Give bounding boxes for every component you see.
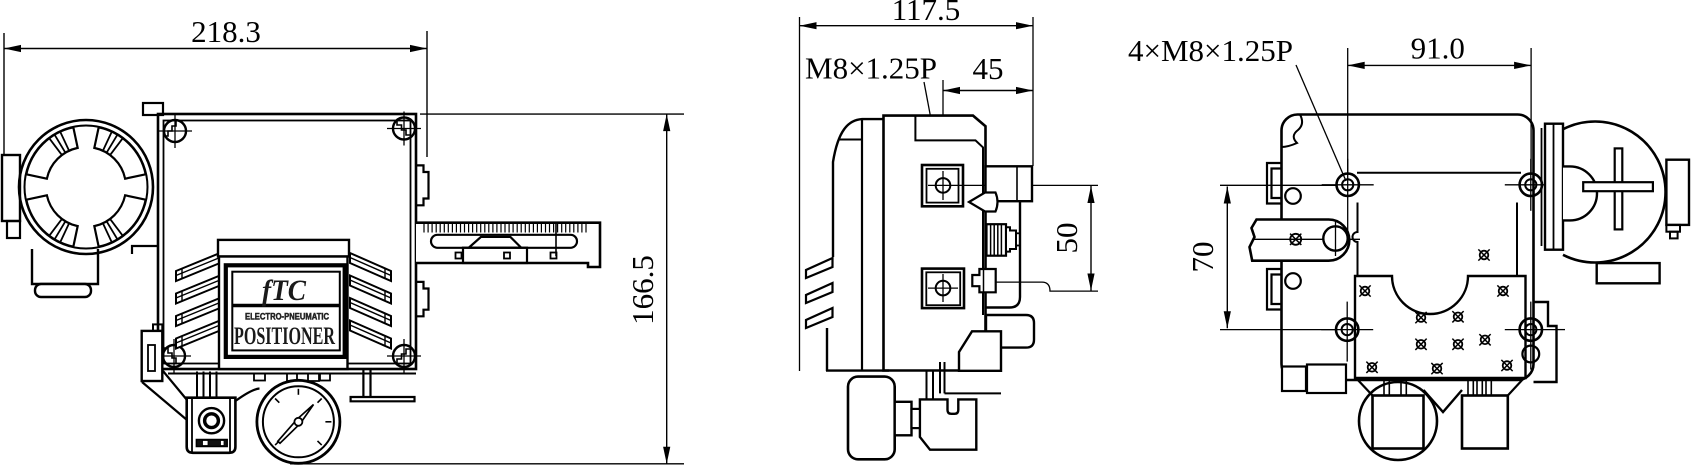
boss centerline / 50 top ref [928, 184, 1098, 186]
dimension 218.3 arrow right [410, 45, 427, 52]
bottom block left [1373, 396, 1424, 449]
dim 91.0 arrow left [1348, 62, 1365, 69]
dim 45 ext left [942, 80, 944, 182]
dim 117.5 arrow right [1016, 22, 1033, 29]
valve block [187, 398, 236, 453]
left fins [176, 253, 220, 281]
nozzle block [987, 224, 1007, 256]
edge circle lower [1285, 273, 1301, 289]
support diagonal 2 [142, 382, 187, 420]
valve bullseye inner [205, 414, 219, 428]
edge circle upper [1285, 188, 1301, 204]
dome bottom bracket [1597, 263, 1660, 283]
dome outer circle [19, 120, 153, 254]
label 4xM8 leader [1296, 65, 1346, 181]
feedback arm hole 2 [504, 253, 510, 259]
plug at lower boss [972, 269, 995, 292]
right column [986, 201, 1021, 307]
svg-text:166.5: 166.5 [625, 255, 660, 325]
back body top-left notch [1282, 115, 1303, 148]
nameplate outer frame [226, 265, 345, 357]
feedback arm ruler ticks [423, 224, 425, 233]
feedback arm outline [416, 223, 600, 267]
svg-text:fTC: fTC [262, 274, 307, 307]
svg-text:45: 45 [973, 51, 1004, 86]
dimension 218.3 line [4, 48, 427, 50]
dimension 166.5 extension line top [420, 113, 684, 115]
dim 45 line [943, 90, 1033, 92]
nozzle stripes [990, 224, 992, 256]
dim 70 arrow bottom [1224, 311, 1231, 328]
svg-text:POSITIONER: POSITIONER [234, 323, 336, 350]
valve block inner edges [191, 398, 193, 452]
pointer tag [969, 193, 998, 212]
left clip block [142, 331, 163, 381]
dim 70 top ref [1220, 184, 1336, 186]
right recess mark [1480, 251, 1489, 260]
left clip lower [1267, 269, 1282, 310]
bolt bottom-right [1520, 318, 1542, 340]
panel body [219, 257, 348, 370]
svg-text:50: 50 [1049, 223, 1084, 254]
side gauge nub [895, 402, 912, 436]
upper boss crosshair v [942, 171, 944, 200]
pump block D [959, 331, 1001, 371]
dim 70 arrow top [1224, 187, 1231, 204]
upper boss outer [922, 165, 963, 206]
bolt crosshair ext right bottom [1557, 329, 1565, 331]
T-support [351, 369, 415, 401]
terminal box step [1666, 225, 1680, 232]
dome flange outer line [1541, 128, 1543, 246]
dimension 166.5 arrow bottom [663, 447, 670, 464]
feedback arm lower block [463, 248, 527, 263]
upper boss circle [936, 178, 951, 193]
right block A [986, 166, 1033, 201]
dome foot [32, 249, 98, 284]
dim 45 arrow left [943, 87, 960, 94]
corner step bottom-right [397, 349, 411, 363]
bolt crosshair ext right top [1557, 184, 1583, 186]
svg-text:91.0: 91.0 [1411, 31, 1465, 66]
side body main outline [884, 116, 986, 371]
valve dark stripe [196, 440, 227, 447]
lower boss circle [936, 281, 951, 296]
side back plate [861, 119, 863, 371]
back recess right edge [1516, 203, 1518, 277]
feedback arm trapezoid [469, 237, 521, 248]
arm big hole centerline [1335, 221, 1337, 256]
corner step top-left [164, 121, 177, 136]
svg-text:70: 70 [1185, 242, 1220, 273]
side gauge rounded [848, 377, 895, 460]
arm small mark [1290, 234, 1301, 245]
bottom bar [168, 373, 416, 375]
pressure gauge outer circle [257, 380, 340, 463]
bottom-left rect B [1307, 365, 1346, 394]
dimension 166.5 line [666, 114, 668, 464]
plug bend line [996, 282, 1098, 291]
terminal box left [2, 155, 20, 221]
bolt top-left [1337, 174, 1359, 196]
bottom block right [1462, 396, 1508, 449]
lower boss outer [922, 269, 964, 309]
dimension 218.3 extension line right [426, 31, 428, 157]
side body top notch [915, 116, 983, 315]
terminal box step [7, 221, 20, 238]
corner screw top-left [164, 120, 186, 142]
support diagonal 1 [163, 371, 187, 400]
dimension 218.3 extension line left [3, 33, 5, 155]
V notch between blocks [1424, 390, 1463, 412]
dome flange strip [1545, 124, 1563, 250]
dim 91.0 arrow right [1514, 62, 1531, 69]
back recess top line [1357, 172, 1521, 174]
upper boss inner [927, 169, 959, 203]
manifold columns [926, 371, 928, 400]
left clip inner [148, 345, 155, 371]
pressure gauge ticks [297, 389, 299, 395]
plate screw marks [1361, 287, 1370, 296]
corner screw bottom-right [393, 345, 415, 367]
svg-text:117.5: 117.5 [892, 0, 961, 27]
body outer rectangle [158, 114, 416, 369]
terminal box right [1666, 160, 1689, 225]
svg-text:218.3: 218.3 [191, 14, 261, 49]
bottom block with notch [920, 399, 976, 449]
plate stubs [1383, 380, 1385, 396]
dim 50 arrow top [1087, 186, 1094, 203]
dome cross vertical bar [1615, 148, 1623, 229]
arm centerline [1254, 238, 1360, 240]
side gauge connector [912, 409, 920, 428]
dome cross horizontal bar [1583, 182, 1653, 191]
corner step bottom-left [164, 348, 177, 363]
back body rounded rect [1282, 115, 1534, 381]
dim 91.0 ext left [1347, 48, 1349, 173]
side cover curve [833, 119, 884, 257]
left clip top tab [153, 324, 162, 331]
bottom tab 2 [287, 374, 319, 382]
baseline bottom extension [290, 463, 684, 465]
bolt bottom-left [1336, 318, 1358, 340]
plate bevel right [1508, 378, 1524, 396]
panel top cap [218, 240, 349, 257]
bottom tab 1 [254, 374, 265, 381]
dim 91.0 line [1348, 64, 1531, 66]
dimension 218.3 arrow left [4, 45, 21, 52]
small circle below right bolt [1522, 346, 1539, 363]
right block A inner line [1016, 166, 1018, 201]
dome bump [1563, 166, 1597, 220]
lower boss inner [926, 272, 960, 305]
dim 70 bottom ref [1220, 329, 1336, 331]
dome inner rim circle [25, 126, 148, 249]
dim 117.5 ext right [1032, 17, 1034, 166]
dim 117.5 line [800, 25, 1034, 27]
feedback arm long tick [555, 224, 557, 257]
svg-text:M8×1.25P: M8×1.25P [805, 51, 937, 86]
side cover inner line [838, 139, 862, 141]
pipe lines [196, 372, 198, 398]
nameplate divider [232, 304, 339, 308]
right bracket [1534, 302, 1557, 382]
pressure gauge inner circle [263, 386, 334, 457]
right edge upper tab [416, 165, 429, 205]
dome-body step [132, 246, 159, 254]
right fins [350, 253, 391, 281]
left clip upper [1267, 163, 1282, 204]
back recess left edge [1353, 203, 1358, 277]
pressure gauge hub [294, 418, 302, 426]
nameplate inner frame [232, 272, 339, 351]
feedback arm slot [431, 235, 577, 248]
svg-text:ELECTRO-PNEUMATIC: ELECTRO-PNEUMATIC [245, 312, 329, 323]
bottom tab 3 [320, 374, 330, 381]
feedback arm hole 3 [551, 253, 557, 259]
corner step top-right [397, 121, 411, 135]
dome flange inner line [1553, 124, 1555, 250]
svg-text:4×M8×1.25P: 4×M8×1.25P [1128, 33, 1293, 68]
dim 50 arrow bottom [1087, 274, 1094, 291]
gauge-valve curve [235, 389, 259, 402]
arm big hole [1323, 226, 1347, 250]
body inner rectangle [164, 121, 411, 364]
dim 91.0 ext right [1530, 48, 1532, 173]
side plate bottom [826, 369, 889, 371]
nozzle tip [1016, 233, 1020, 245]
label M8 leader [924, 82, 943, 180]
dim 117.5 arrow left [800, 22, 817, 29]
arm outline [1250, 220, 1350, 261]
dim 45 arrow right [1016, 87, 1033, 94]
corner screw bottom-left [163, 345, 185, 367]
dim 70 line [1226, 187, 1228, 329]
bottom plate [1355, 276, 1526, 378]
side left lower edge [826, 328, 828, 371]
plug inner line [983, 269, 985, 292]
dome foot cap [35, 284, 91, 297]
nozzle mid [1006, 227, 1016, 251]
lower boss crosshair [928, 287, 958, 289]
manifold bottom line [945, 392, 1002, 394]
terminal box nub [1670, 232, 1678, 239]
right edge lower tab [416, 282, 429, 316]
bottom-left rect A [1282, 367, 1306, 392]
back dome arc [1563, 122, 1666, 263]
back bottom circle [1359, 382, 1437, 460]
dim 117.5 ext left [799, 17, 801, 371]
valve bullseye outer [199, 408, 224, 433]
dome quadrant windows [94, 195, 145, 246]
pressure gauge needle [278, 405, 314, 444]
dome top flange block [143, 103, 163, 115]
feedback arm hole 1 [456, 253, 462, 259]
side left fins [806, 258, 833, 278]
dimension 166.5 arrow top [663, 114, 670, 131]
plate bevel left [1356, 378, 1373, 396]
dim 50 line [1090, 186, 1092, 291]
block C [986, 315, 1034, 348]
corner screw top-right [393, 118, 415, 140]
bolt top-right [1520, 174, 1542, 196]
